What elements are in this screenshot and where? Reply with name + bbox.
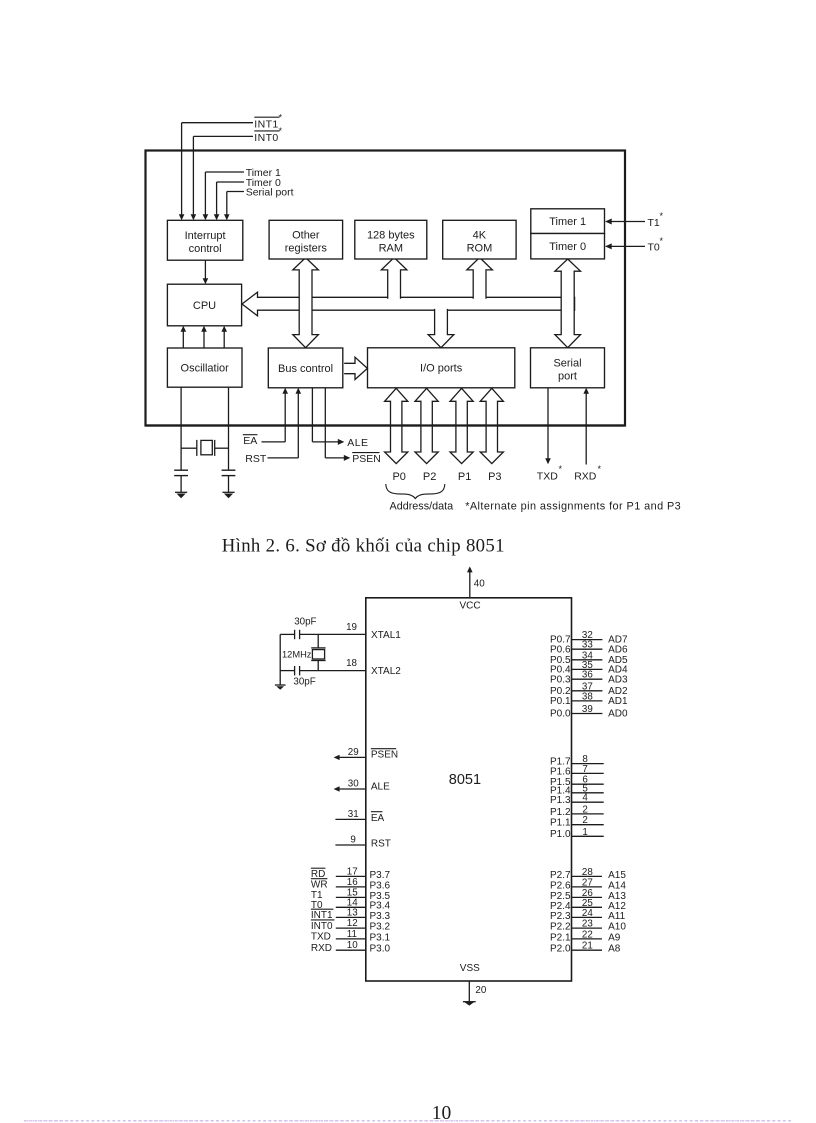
svg-text:XTAL1: XTAL1 <box>371 630 401 641</box>
svg-text:27: 27 <box>582 877 593 888</box>
svg-text:Address/data: Address/data <box>390 501 454 513</box>
bus: main internal bus channel with arrow into CPU <box>242 292 575 316</box>
block: Oscillator <box>167 348 242 387</box>
svg-text:Serial: Serial <box>553 358 581 370</box>
signal INT1 (wire + label) <box>182 122 253 124</box>
svg-text:P2.1: P2.1 <box>550 932 571 943</box>
svg-text:PSEN: PSEN <box>371 749 398 760</box>
svg-text:EA: EA <box>243 435 257 447</box>
svg-text:ALE: ALE <box>371 782 390 793</box>
svg-text:A8: A8 <box>608 944 621 955</box>
signal T0 external input <box>606 245 645 247</box>
pin 2 P1.1 <box>572 824 604 826</box>
bus: down arrow into I/O ports <box>428 309 454 348</box>
svg-text:P3.6: P3.6 <box>370 880 391 891</box>
pin 14 P3.4 / T0 <box>336 906 366 908</box>
pin 30 ALE <box>340 788 366 790</box>
bus: vertical channel Timers to Serial port (double arrow) <box>555 259 581 348</box>
capacitor 30pF (top) <box>280 633 294 635</box>
svg-text:21: 21 <box>582 941 593 952</box>
signal Serial port input (wire + label) <box>227 191 244 193</box>
pin 19 XTAL1 <box>300 633 366 635</box>
pin 23 P2.2 / A10 <box>572 927 603 929</box>
svg-text:TXD: TXD <box>537 471 558 483</box>
svg-text:T1: T1 <box>648 217 660 229</box>
signal TXD (wire + label) <box>547 388 549 459</box>
svg-text:Bus control: Bus control <box>278 363 333 375</box>
pin 8 P1.7 <box>572 763 604 765</box>
svg-text:INT0: INT0 <box>254 132 278 144</box>
svg-text:CPU: CPU <box>193 300 216 312</box>
svg-text:TXD: TXD <box>311 932 331 943</box>
svg-text:P0.6: P0.6 <box>550 644 571 655</box>
block: Interrupt control <box>167 220 242 260</box>
svg-text:*: * <box>279 113 283 123</box>
svg-text:9: 9 <box>350 834 355 845</box>
pin 6 P1.5 <box>572 783 604 785</box>
crystal (block diagram) <box>181 447 197 449</box>
pin 35 P0.4 / AD4 <box>572 668 603 670</box>
svg-text:38: 38 <box>582 691 593 702</box>
svg-text:P3.0: P3.0 <box>370 944 391 955</box>
wire: oscillator right leg <box>228 387 230 470</box>
pin 7 P1.6 <box>572 772 604 774</box>
svg-text:30pF: 30pF <box>294 617 316 628</box>
svg-text:I/O ports: I/O ports <box>420 363 463 375</box>
svg-text:ROM: ROM <box>467 242 493 254</box>
pin 21 P2.0 / A8 <box>572 949 603 951</box>
svg-text:12MHz: 12MHz <box>282 650 312 660</box>
svg-text:2: 2 <box>582 815 587 826</box>
svg-text:RXD: RXD <box>574 471 597 483</box>
pin 40 VCC <box>469 572 471 598</box>
bus: up arrow into 128 bytes RAM <box>381 258 407 299</box>
block: Other registers <box>269 220 343 259</box>
svg-text:23: 23 <box>582 919 593 930</box>
svg-text:17: 17 <box>347 866 358 877</box>
pin 15 P3.5 / T1 <box>336 896 366 898</box>
pin 2 P1.2 <box>572 813 604 815</box>
svg-text:P1.0: P1.0 <box>550 829 571 840</box>
svg-text:*: * <box>598 464 602 474</box>
svg-text:128 bytes: 128 bytes <box>367 229 415 241</box>
svg-text:RST: RST <box>245 453 267 465</box>
pin 13 P3.3 / INT1 <box>336 916 366 918</box>
svg-text:P1.6: P1.6 <box>550 766 571 777</box>
pin 25 P2.4 / A12 <box>572 906 603 908</box>
capacitor 30pF (bottom) <box>280 670 294 672</box>
svg-text:P1: P1 <box>458 471 471 483</box>
pin 10 P3.0 / RXD <box>336 949 366 951</box>
signal RXD (wire + label) <box>585 393 587 465</box>
port P1 double arrow <box>450 388 473 463</box>
svg-text:P3.1: P3.1 <box>370 932 391 943</box>
svg-text:Hình 2. 6. Sơ đồ khối của chip: Hình 2. 6. Sơ đồ khối của chip 8051 <box>222 535 505 556</box>
svg-text:control: control <box>189 243 222 255</box>
brace: address/data under P0 P2 <box>386 484 445 499</box>
svg-text:WR: WR <box>311 880 328 891</box>
svg-text:Serial port: Serial port <box>246 187 294 199</box>
pin 34 P0.5 / AD5 <box>572 659 603 661</box>
pin 5 P1.4 <box>572 792 604 794</box>
wire: crystal ground rail <box>279 634 281 685</box>
svg-text:VCC: VCC <box>459 601 480 612</box>
pin 26 P2.5 / A13 <box>572 896 603 898</box>
svg-text:registers: registers <box>285 242 328 254</box>
arrow: Bus control to I/O ports <box>344 357 367 379</box>
svg-text:ALE: ALE <box>347 437 368 449</box>
svg-text:Other: Other <box>292 229 320 241</box>
svg-text:PSEN: PSEN <box>352 453 381 465</box>
svg-text:A9: A9 <box>608 932 621 943</box>
svg-text:24: 24 <box>582 908 593 919</box>
svg-text:13: 13 <box>347 907 358 918</box>
svg-text:10: 10 <box>432 1103 452 1123</box>
svg-text:36: 36 <box>582 670 593 681</box>
block: Bus control <box>268 348 343 388</box>
svg-text:10: 10 <box>347 940 358 951</box>
svg-text:4: 4 <box>582 793 588 804</box>
bus: vertical channel Other registers to Bus control (double arrow) <box>293 258 319 348</box>
signal ALE (wire out of Bus control + label) <box>311 388 313 442</box>
pin 12 P3.2 / INT0 <box>336 927 366 929</box>
svg-text:XTAL2: XTAL2 <box>371 666 401 677</box>
pin 32 P0.7 / AD7 <box>572 639 603 641</box>
svg-text:P2.0: P2.0 <box>550 944 571 955</box>
signal Timer 0 input (wire + label) <box>217 181 244 183</box>
svg-text:P2.7: P2.7 <box>550 870 571 881</box>
svg-text:INT1: INT1 <box>254 118 278 130</box>
svg-text:8051: 8051 <box>449 772 481 788</box>
block: Serial port <box>531 348 605 388</box>
svg-text:AD0: AD0 <box>608 709 628 720</box>
port P0 double arrow <box>385 388 408 463</box>
svg-text:P0: P0 <box>392 471 405 483</box>
svg-text:Oscillatior: Oscillatior <box>181 363 230 375</box>
svg-text:31: 31 <box>348 809 359 820</box>
signal INT0 (wire + label) <box>193 135 253 137</box>
svg-text:40: 40 <box>474 579 485 590</box>
svg-text:A10: A10 <box>608 922 626 933</box>
svg-text:*: * <box>559 464 563 474</box>
svg-text:Interrupt: Interrupt <box>185 230 226 242</box>
svg-text:22: 22 <box>582 929 593 940</box>
port P3 double arrow <box>480 388 503 463</box>
svg-text:30: 30 <box>348 778 359 789</box>
pin 29 PSEN <box>340 756 366 758</box>
pin 27 P2.6 / A14 <box>572 886 603 888</box>
svg-text:12: 12 <box>347 918 358 929</box>
crystal 12MHz <box>317 634 319 648</box>
block: I/O ports <box>368 348 515 388</box>
signal Timer 1 input (wire + label) <box>205 171 244 173</box>
svg-text:A11: A11 <box>608 911 625 922</box>
port P2 double arrow <box>415 388 438 463</box>
svg-text:20: 20 <box>475 985 486 996</box>
block: CPU <box>167 284 241 326</box>
block: Timer 0 <box>531 234 605 259</box>
svg-text:RAM: RAM <box>379 242 403 254</box>
pin 37 P0.2 / AD2 <box>572 690 603 692</box>
pin 9 RST <box>335 844 365 846</box>
svg-text:P2.2: P2.2 <box>550 922 571 933</box>
ground (crystal) <box>275 684 286 686</box>
svg-text:P2.6: P2.6 <box>550 880 571 891</box>
svg-text:P3.7: P3.7 <box>370 870 391 881</box>
pin 17 P3.7 / RD <box>336 875 366 877</box>
svg-text:*: * <box>660 211 664 221</box>
svg-text:P3.2: P3.2 <box>370 922 391 933</box>
capacitor C2 (right 30pF) <box>222 469 236 471</box>
footer dotted rule <box>24 1120 791 1122</box>
ground (left leg) <box>175 491 187 493</box>
svg-text:port: port <box>558 370 577 382</box>
IC 8051 body <box>366 598 572 981</box>
pin 22 P2.1 / A9 <box>572 938 603 940</box>
pin 38 P0.1 / AD1 <box>572 700 603 702</box>
svg-text:INT0: INT0 <box>311 921 333 932</box>
outer boundary box of 8051 block diagram <box>146 151 626 426</box>
pin 31 EA <box>335 818 365 820</box>
pin 18 XTAL2 <box>300 670 366 672</box>
svg-text:P2.3: P2.3 <box>550 911 571 922</box>
pin 4 P1.3 <box>572 801 604 803</box>
svg-text:T0: T0 <box>648 242 660 254</box>
svg-text:A14: A14 <box>608 880 626 891</box>
svg-text:*Alternate pin assignments for: *Alternate pin assignments for P1 and P3 <box>465 501 681 513</box>
pin 28 P2.7 / A15 <box>572 875 603 877</box>
svg-text:11: 11 <box>347 929 357 940</box>
svg-text:*: * <box>660 236 664 246</box>
svg-text:RXD: RXD <box>311 943 332 954</box>
svg-text:4K: 4K <box>473 229 487 241</box>
svg-text:AD3: AD3 <box>608 674 628 685</box>
svg-text:Timer 0: Timer 0 <box>549 241 586 253</box>
svg-text:P2: P2 <box>423 471 436 483</box>
wire: oscillator left leg <box>180 387 182 470</box>
outer box bottom edge overdraw <box>146 424 625 426</box>
pin 39 P0.0 / AD0 <box>572 713 603 715</box>
svg-text:P1.2: P1.2 <box>550 807 571 818</box>
block: 4K ROM <box>443 220 516 259</box>
svg-text:P1.1: P1.1 <box>550 818 571 829</box>
svg-text:P0.1: P0.1 <box>550 696 571 707</box>
capacitor C1 (left 30pF) <box>174 469 188 471</box>
svg-text:1: 1 <box>582 827 587 838</box>
block: 128 bytes RAM <box>355 220 427 259</box>
svg-text:28: 28 <box>582 867 593 878</box>
svg-text:AD1: AD1 <box>608 696 628 707</box>
pin 1 P1.0 <box>572 835 604 837</box>
svg-text:7: 7 <box>582 764 587 775</box>
svg-text:Timer 1: Timer 1 <box>549 216 586 228</box>
pin 24 P2.3 / A11 <box>572 916 603 918</box>
svg-text:*: * <box>279 126 283 136</box>
wire: Interrupt control to CPU <box>204 260 206 278</box>
pin 11 P3.1 / TXD <box>336 938 366 940</box>
svg-text:16: 16 <box>347 877 358 888</box>
svg-text:19: 19 <box>346 622 357 633</box>
svg-text:AD6: AD6 <box>608 644 628 655</box>
pin 33 P0.6 / AD6 <box>572 648 603 650</box>
svg-text:A15: A15 <box>608 870 626 881</box>
svg-text:30pF: 30pF <box>293 676 315 687</box>
ground (right leg) <box>222 491 234 493</box>
svg-text:33: 33 <box>582 640 593 651</box>
pin 16 P3.6 / WR <box>336 886 366 888</box>
block: Timer 1 <box>531 209 605 234</box>
wires: Oscillator to CPU (three arrows) <box>182 331 184 348</box>
svg-text:P1.3: P1.3 <box>550 795 571 806</box>
svg-text:RST: RST <box>371 839 391 850</box>
signal PSEN (wire out of Bus control + label) <box>324 388 326 458</box>
svg-text:18: 18 <box>346 658 357 669</box>
signal T1 external input <box>606 221 645 223</box>
pin 36 P0.3 / AD3 <box>572 678 603 680</box>
svg-text:2: 2 <box>582 804 587 815</box>
svg-text:P0.0: P0.0 <box>550 709 571 720</box>
svg-text:29: 29 <box>348 747 359 758</box>
svg-text:VSS: VSS <box>460 963 480 974</box>
svg-text:P0.3: P0.3 <box>550 674 571 685</box>
svg-text:P3: P3 <box>488 471 501 483</box>
svg-text:P3.3: P3.3 <box>370 911 391 922</box>
svg-text:39: 39 <box>582 704 593 715</box>
bus: up arrow into 4K ROM <box>467 258 493 299</box>
svg-text:EA: EA <box>371 813 385 824</box>
